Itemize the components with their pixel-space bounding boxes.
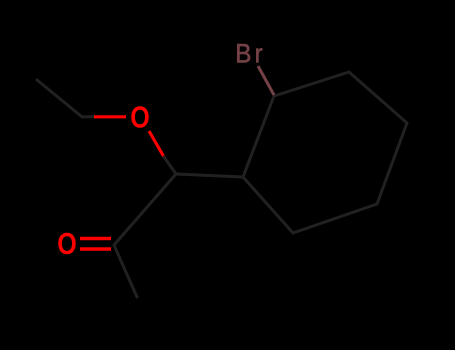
bond C2-Br (purple) [258,66,274,95]
ring edge C3-C4 [349,72,407,123]
ring edge C2-C3 [274,72,349,96]
ring edge C5-C6 [293,204,377,233]
bond CH-C1 (to ring, dark) [176,174,243,177]
bond CH2-O oxygen half (red) [94,115,126,118]
svg-text:O: O [130,99,150,134]
svg-text:O: O [57,225,77,260]
bond C(=O)-CH3 (dark) [114,245,137,297]
bond O-CH carbon half (dark) [164,157,176,174]
ring edge C4-C5 [377,123,407,204]
double bond C=O line 2 (red) [80,247,111,251]
svg-text:Br: Br [235,39,266,68]
ring edge C6-C1 [243,177,293,233]
bond CH2-O carbon half (dark) [82,115,95,118]
ring edge C1-C2 [243,96,274,177]
double bond C=O line 1 (red) [80,237,111,241]
bond CH3-CH2 (ethyl methyl, dark) [37,80,82,117]
bond O-CH oxygen half (red) [149,131,164,157]
bond CH-C(=O) (dark) [114,174,176,245]
